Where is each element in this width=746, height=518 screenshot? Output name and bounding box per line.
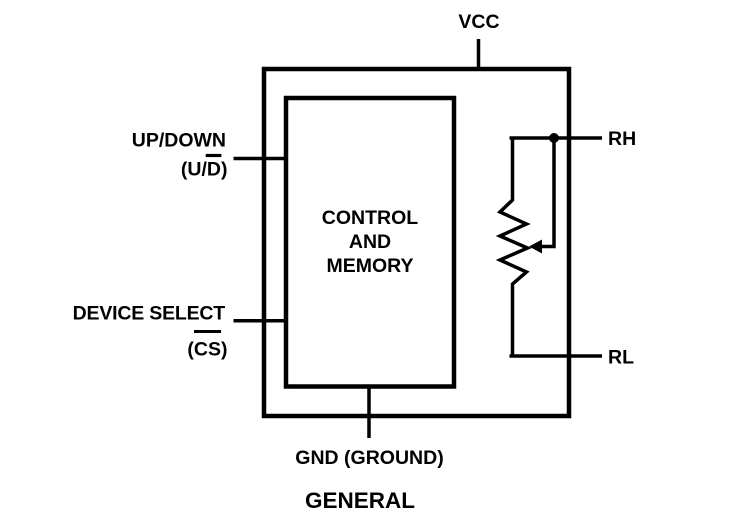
label CONTROL AND MEMORY (322, 207, 418, 277)
label GND (GROUND) (295, 447, 443, 469)
svg-text:(U/D): (U/D) (181, 159, 228, 181)
wiper wire with arrow (529, 138, 554, 254)
svg-text:UP/DOWN: UP/DOWN (132, 130, 226, 152)
label DEVICE SELECT (CS) (73, 303, 228, 361)
node junction dot on RH wire (549, 133, 559, 143)
wire RL lead (510, 354, 603, 358)
wire DEVICE SELECT lead (234, 319, 288, 323)
svg-text:GND (GROUND): GND (GROUND) (295, 447, 443, 469)
inner box CONTROL AND MEMORY (286, 98, 454, 387)
label VCC (458, 11, 499, 33)
svg-text:RL: RL (608, 347, 634, 369)
resistor R1 (potentiometer element) (500, 137, 528, 357)
label UP/DOWN (U/D) (132, 130, 228, 181)
svg-text:RH: RH (608, 128, 636, 150)
label RH (608, 128, 636, 150)
label RL (608, 347, 634, 369)
svg-text:VCC: VCC (458, 11, 499, 33)
wire VCC lead (477, 39, 481, 69)
svg-text:GENERAL: GENERAL (305, 488, 415, 513)
svg-text:DEVICE SELECT: DEVICE SELECT (73, 303, 226, 325)
caption GENERAL (305, 488, 415, 513)
wire UP/DOWN lead (234, 157, 288, 161)
svg-text:AND: AND (349, 231, 391, 253)
svg-text:MEMORY: MEMORY (326, 255, 413, 277)
svg-text:(CS): (CS) (187, 339, 227, 361)
svg-text:CONTROL: CONTROL (322, 207, 418, 229)
wire RH lead (510, 136, 603, 140)
outer box (264, 69, 569, 416)
wire GND lead (367, 387, 371, 439)
